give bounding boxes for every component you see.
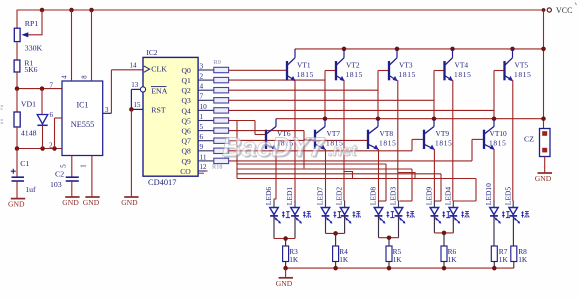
wire R3 cathode join (273, 216, 275, 239)
wire pin4 from rail (62, 10, 72, 81)
resistor R9 on Q0 pin 3 (198, 61, 229, 72)
svg-text:6: 6 (50, 111, 54, 119)
wire VCC drop to CZ (543, 10, 545, 129)
svg-text:8: 8 (82, 75, 89, 79)
svg-text:1K: 1K (499, 255, 509, 264)
svg-text:ENA: ENA (151, 87, 167, 96)
svg-text:1K: 1K (518, 255, 528, 264)
junction rail2 x=543.5 (541, 47, 546, 52)
svg-text:VT2: VT2 (346, 60, 360, 69)
LED LED9 (425, 187, 451, 224)
resistor R15 on Q6 pin 5 (198, 122, 229, 133)
svg-text:13: 13 (131, 81, 139, 89)
LED LED10 (484, 183, 510, 224)
svg-text:VT10: VT10 (490, 129, 508, 138)
svg-text:1815: 1815 (514, 70, 532, 79)
svg-text:4: 4 (62, 75, 69, 79)
wire CO row (206, 170, 208, 172)
ground C1 (8, 181, 25, 208)
LED LED6 (264, 187, 290, 224)
svg-text:Q9: Q9 (182, 157, 191, 166)
svg-text:CO: CO (180, 167, 191, 176)
ground bottom rail (276, 268, 293, 288)
svg-text:C1: C1 (20, 159, 29, 168)
resistor R14 on Q5 pin 1 (198, 112, 229, 123)
resistor R18 on Q9 pin 11 (198, 152, 229, 163)
svg-text:14: 14 (130, 61, 138, 69)
svg-text:11: 11 (200, 152, 207, 161)
svg-text:CD4017: CD4017 (148, 178, 176, 187)
capacitor C1 (11, 159, 36, 194)
svg-text:LED3: LED3 (389, 187, 398, 206)
wire R5 cathode join (378, 216, 380, 238)
transistor VT3 (389, 49, 416, 81)
svg-text:GND: GND (121, 198, 138, 207)
junction rail1-pin8 (89, 8, 94, 13)
svg-text:VT1: VT1 (297, 60, 311, 69)
wire VT3 emitter to LED3 (398, 80, 415, 201)
potentiometer RP1 (14, 10, 42, 53)
wire VT5 emitter to LED5 (512, 80, 514, 201)
svg-text:1815: 1815 (346, 70, 364, 79)
connector CZ (524, 129, 550, 157)
resistor R16 on Q7 pin 6 (198, 132, 229, 143)
junction bottom rail R5 (387, 266, 392, 271)
wire R6 cathode join (433, 216, 435, 233)
resistor R11 on Q2 pin 4 (198, 82, 229, 93)
op-amp IC1 NE555 body (62, 81, 103, 156)
LED LED5 (503, 187, 529, 224)
svg-text:R9: R9 (214, 59, 221, 66)
junction bottom rail R6 (442, 266, 447, 271)
LED LED7 (316, 187, 342, 224)
svg-text:15: 15 (134, 101, 142, 109)
resistor R2 (1, 89, 21, 127)
wire bus line C (237, 173, 441, 175)
transistor VT10 (484, 119, 507, 150)
junction rail1-wiper (40, 8, 45, 13)
svg-text:VT4: VT4 (455, 60, 469, 69)
pin 5 to C2 (61, 156, 72, 178)
svg-text:9: 9 (200, 142, 204, 151)
svg-text:6: 6 (200, 132, 204, 141)
wire R7 cathode join (493, 216, 495, 246)
svg-text:RST: RST (151, 105, 166, 114)
wire VT4 emitter to LED4 (452, 80, 454, 201)
wire rail3 lower collectors (276, 118, 544, 120)
wire Q1 row (229, 79, 325, 81)
resistor R12 on Q3 pin 7 (198, 92, 229, 103)
svg-text:5K6: 5K6 (24, 65, 37, 74)
svg-text:1: 1 (200, 112, 204, 121)
wire bottom rail (286, 267, 514, 269)
transistor VT9 (424, 119, 453, 150)
svg-text:1815: 1815 (489, 139, 507, 148)
svg-text:5: 5 (61, 164, 68, 168)
svg-text:GND: GND (62, 198, 79, 207)
wire VT9 emitter to LED9 (433, 149, 435, 201)
IC U2 CD4017 body (143, 48, 198, 187)
svg-text:LED5: LED5 (503, 187, 512, 206)
svg-text:GND: GND (276, 279, 293, 288)
wire Q3 riser x=434 (433, 71, 435, 119)
wire R4 cathode join (325, 216, 327, 234)
wire Q6 row (229, 130, 304, 132)
svg-text:7: 7 (200, 92, 204, 101)
transistor VT4 (445, 49, 472, 81)
svg-text:VD1: VD1 (21, 99, 36, 108)
transistor VT6 (266, 119, 294, 150)
resistor R8 (511, 246, 528, 268)
wire RP1 to R1 (16, 43, 18, 61)
watermark (222, 132, 358, 164)
svg-text:LED4: LED4 (443, 187, 452, 206)
wire rail2 top collectors (295, 48, 544, 50)
svg-text:2: 2 (49, 142, 53, 150)
wire node2 to C1 (16, 149, 18, 178)
resistor R10 on Q1 pin 2 (198, 72, 229, 83)
junction rail2 x=344 (342, 47, 347, 52)
svg-text:330K: 330K (25, 44, 43, 53)
svg-text:2: 2 (200, 72, 204, 81)
svg-text:5: 5 (200, 122, 204, 131)
svg-text:Q0: Q0 (182, 66, 191, 75)
svg-text:LED1: LED1 (285, 187, 294, 206)
resistor R1 (14, 58, 38, 74)
LED LED1 (285, 187, 311, 224)
transistor VT2 (336, 49, 363, 81)
junction rail2 x=397 (395, 47, 400, 52)
svg-text:4148: 4148 (21, 129, 37, 138)
wire VCC top rail (17, 9, 546, 11)
svg-text:3: 3 (200, 61, 204, 70)
ground pin1 (81, 156, 100, 208)
wire base feed at 444.5 (434, 70, 445, 72)
svg-text:1K: 1K (339, 255, 349, 264)
svg-text:LED2: LED2 (335, 187, 344, 206)
wire Q5 row (229, 120, 255, 122)
resistor R13 on Q4 pin 10 (198, 102, 229, 113)
node pin7 row (15, 86, 62, 91)
svg-text:1K: 1K (448, 255, 458, 264)
wire left rail top (16, 10, 18, 29)
svg-text:1815: 1815 (379, 139, 397, 148)
diode VD1 (21, 89, 48, 149)
junction rail3 x=434 (432, 116, 437, 121)
pin 6 stub (50, 111, 63, 149)
wire VT8 emitter to LED8 (378, 149, 380, 201)
pin 12 CO stub (198, 163, 207, 173)
resistor R7 (491, 246, 508, 268)
wire Q7 row (229, 139, 368, 141)
svg-text:BacDY7: BacDY7 (222, 132, 326, 162)
svg-text:C2: C2 (55, 169, 64, 178)
svg-text:IC2: IC2 (146, 48, 157, 57)
svg-text:VT9: VT9 (436, 129, 450, 138)
svg-text:GND: GND (535, 174, 552, 183)
svg-text:NE555: NE555 (71, 120, 95, 129)
svg-text:VT3: VT3 (399, 60, 413, 69)
svg-text:4: 4 (200, 82, 204, 91)
wire pin8 from rail (82, 10, 92, 81)
svg-text:Q3: Q3 (182, 96, 191, 105)
svg-text:Q4: Q4 (182, 106, 191, 115)
capacitor C2 (50, 169, 79, 189)
wire Q4 riser x=494 (493, 71, 495, 119)
svg-text:.net: .net (328, 143, 357, 160)
svg-text:Q7: Q7 (182, 137, 191, 146)
svg-text:103: 103 (50, 180, 62, 189)
wire VT2 emitter to LED2 (344, 80, 353, 201)
resistor R3 (283, 246, 299, 268)
junction bottom rail R4 (333, 266, 338, 271)
transistor VT5 (505, 49, 532, 81)
svg-text:VT5: VT5 (515, 60, 529, 69)
svg-text:LED9: LED9 (425, 187, 434, 206)
svg-text:VT8: VT8 (380, 129, 394, 138)
junction rail2 x=512.5 (510, 47, 515, 52)
svg-text:Q1: Q1 (182, 76, 191, 85)
wire bus line B (237, 168, 412, 170)
LED LED4 (443, 187, 469, 224)
wire Q2 row (229, 89, 378, 91)
wire Q3 row (229, 99, 434, 101)
ground C2 (62, 181, 79, 207)
node pin2 row (15, 146, 62, 151)
svg-text:GND: GND (83, 198, 100, 207)
resistor R17 on Q8 pin 9 (198, 142, 229, 153)
svg-text:R18: R18 (212, 164, 223, 171)
svg-text:1uf: 1uf (25, 185, 36, 194)
svg-text:CLK: CLK (151, 64, 167, 73)
junction rail3 x=494 (492, 116, 497, 121)
junction rail3 x=325 (323, 116, 328, 121)
wire R1 to node 7 (16, 72, 18, 89)
svg-text:1: 1 (81, 164, 88, 167)
svg-text:1815: 1815 (399, 70, 417, 79)
svg-text:Q8: Q8 (182, 147, 191, 156)
junction bottom rail R7 (492, 266, 497, 271)
wire Q9 row (229, 160, 472, 162)
svg-text:Q6: Q6 (182, 127, 191, 136)
transistor VT7 (315, 119, 344, 150)
ground CD4017 ENA/RST (121, 109, 138, 207)
wire base feed at 389 (378, 70, 389, 72)
junction bottom rail R3 (283, 266, 288, 271)
svg-text:CZ: CZ (524, 135, 534, 144)
wire bus feed riser (236, 121, 238, 179)
svg-text:LED8: LED8 (369, 187, 378, 206)
wire R8 cathode join (512, 216, 514, 246)
wire VT10 emitter to LED10 (493, 149, 495, 201)
wire Q0 to VT1 base (229, 69, 287, 71)
wire Q8 row (229, 150, 412, 152)
LED LED3 (389, 187, 415, 224)
svg-text:IC1: IC1 (77, 100, 89, 109)
junction rail3 x=378 (376, 116, 381, 121)
svg-text:1815: 1815 (297, 70, 315, 79)
resistor R6 (441, 246, 457, 268)
svg-text:VT7: VT7 (327, 129, 341, 138)
ground CZ (535, 157, 552, 184)
pin 3 output (103, 61, 143, 114)
svg-text:10: 10 (200, 102, 208, 111)
wire Q1 riser x=325 (324, 71, 326, 119)
pin 15 RST stub (129, 101, 143, 112)
svg-text:VCC: VCC (556, 6, 572, 15)
svg-text:12: 12 (200, 163, 208, 171)
wire base feed at 504.5 (494, 70, 505, 72)
svg-text:3: 3 (105, 106, 109, 114)
transistor VT8 (368, 119, 397, 150)
junction rail1-pin4 (69, 8, 74, 13)
wire VT7 emitter to LED7 (325, 149, 327, 201)
wire VT6 emitter to LED6 (274, 149, 276, 201)
svg-text:1815: 1815 (435, 139, 453, 148)
svg-text:LED6: LED6 (264, 187, 273, 206)
svg-text:7: 7 (50, 82, 54, 90)
transistor VT1 (287, 49, 314, 81)
wire base feed at 336 (325, 70, 336, 72)
LED LED8 (369, 187, 395, 224)
junction rail3 x=543.5 (541, 116, 546, 121)
svg-text:1K: 1K (393, 255, 403, 264)
wire R2 to node 2 (16, 127, 18, 149)
wire Q2 riser x=378 (377, 71, 379, 119)
VCC terminal (542, 3, 577, 16)
svg-text:Q5: Q5 (182, 116, 191, 125)
svg-text:LED10: LED10 (484, 183, 493, 205)
wire Q4 row (229, 109, 494, 111)
LED LED2 (335, 187, 361, 224)
svg-text:1815: 1815 (454, 70, 472, 79)
wire bus line D (237, 178, 476, 180)
junction rail2 x=452.5 (450, 47, 455, 52)
svg-text:1K: 1K (289, 255, 299, 264)
resistor R5 (386, 246, 402, 268)
wire bus line A (237, 163, 386, 165)
wire VT1 emitter to LED1 (294, 80, 296, 201)
svg-text:RP1: RP1 (25, 19, 39, 28)
pin 13 ENA bubble (131, 81, 145, 110)
resistor R4 (333, 246, 349, 268)
svg-text:Q2: Q2 (182, 86, 191, 95)
svg-text:LED7: LED7 (316, 187, 325, 206)
svg-text:GND: GND (8, 199, 25, 208)
